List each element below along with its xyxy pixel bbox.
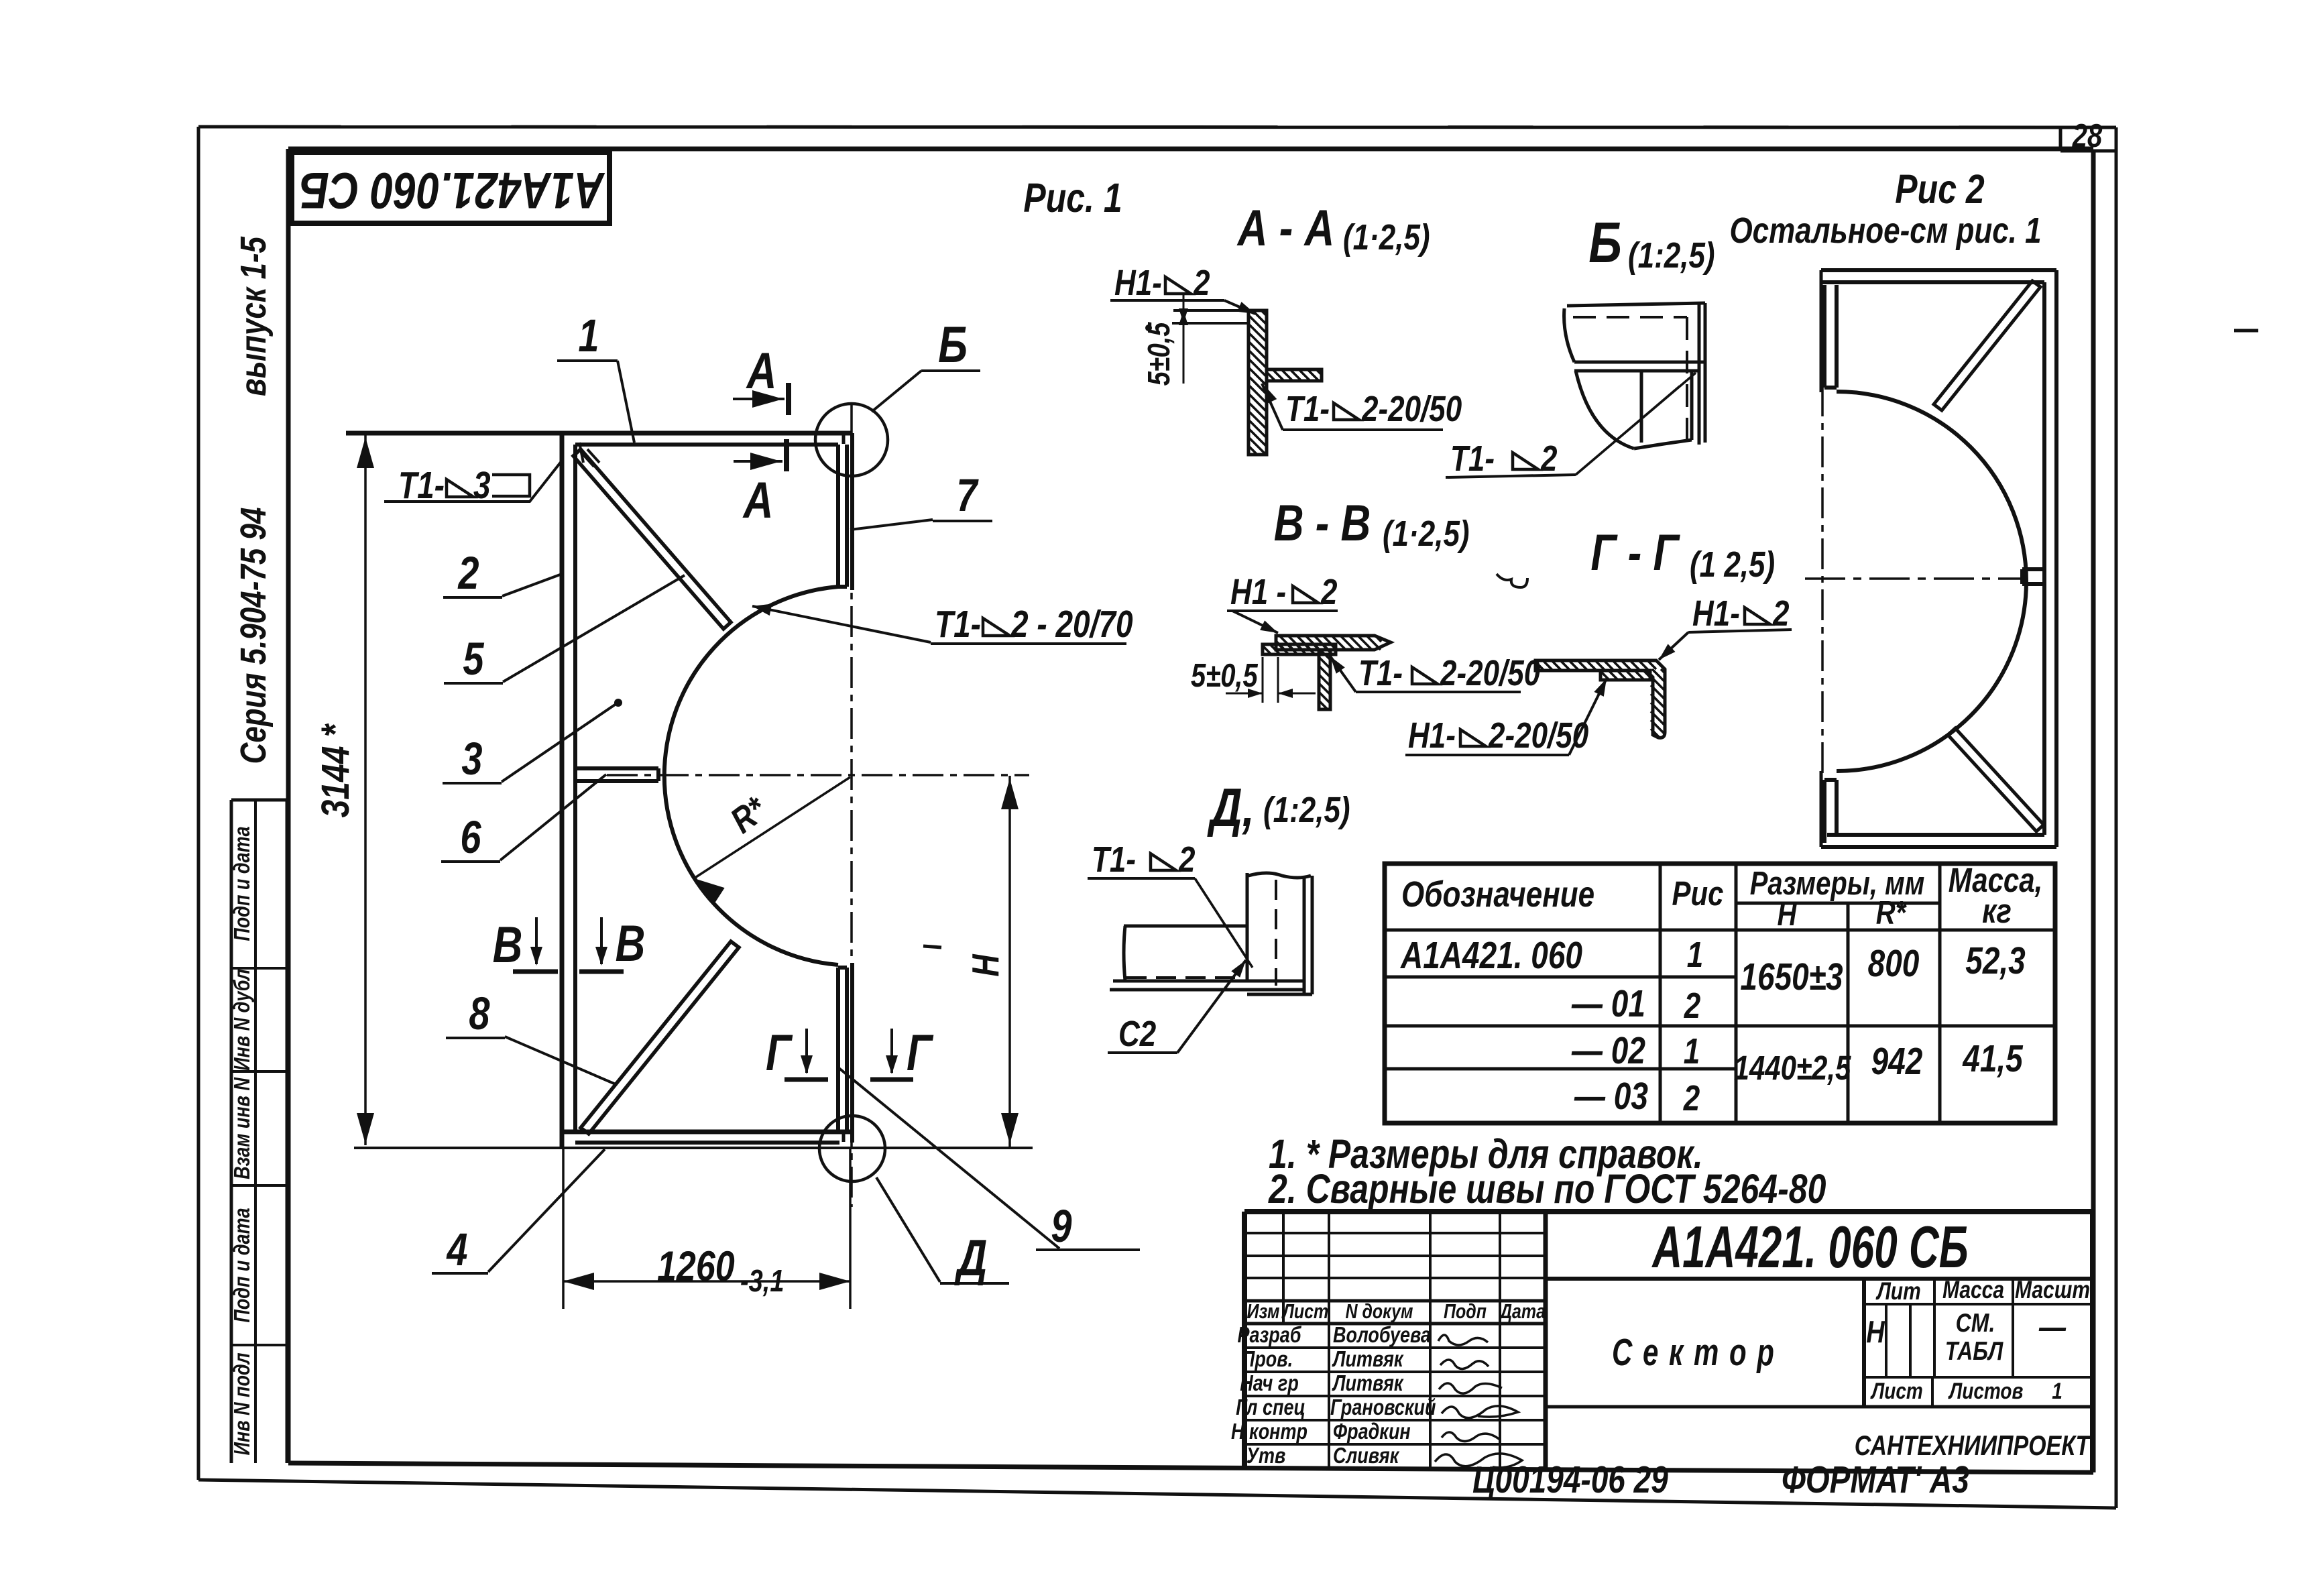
section mark В (left) (493, 916, 558, 973)
table row А1А421.060 (1399, 935, 1703, 976)
svg-text:Г: Г (766, 1024, 793, 1081)
svg-text:Утв: Утв (1246, 1444, 1286, 1468)
svg-text:Д: Д (954, 1229, 987, 1286)
svg-text:8: 8 (469, 988, 489, 1040)
svg-text:3: 3 (461, 734, 482, 785)
svg-text:— 03: — 03 (1574, 1075, 1648, 1117)
svg-text:Литвяк: Литвяк (1332, 1348, 1404, 1372)
Рис.2 upper diagonal (1934, 281, 2040, 410)
svg-text:2-20/50: 2-20/50 (1440, 654, 1540, 693)
title block Лит/Масса/Масшт headers (1875, 1277, 2091, 1305)
Рис.2 left top member (1821, 270, 1837, 392)
section title Г-Г (1:2,5) (1590, 524, 1775, 585)
Рис.2 horizontal centreline (1805, 577, 2022, 580)
svg-text:2: 2 (458, 548, 479, 599)
svg-text:Лит: Лит (1875, 1278, 1921, 1305)
svg-text:2: 2 (1540, 439, 1557, 479)
Рис.1 lower diagonal member 8 (581, 941, 739, 1134)
svg-text:2 - 20/70: 2 - 20/70 (1010, 603, 1133, 645)
svg-text:В - В: В - В (1274, 494, 1371, 551)
position 2 (443, 548, 562, 599)
svg-text:Н: Н (965, 954, 1006, 977)
Рис.2 semicircular opening (1837, 392, 2026, 771)
А-А thickness dimension 5±0,5 (1141, 294, 1188, 386)
section title В-В (1:2,5) (1274, 494, 1470, 554)
svg-text:САНТЕХНИИПРОЕКТ: САНТЕХНИИПРОЕКТ (1855, 1431, 2091, 1462)
svg-text:—: — (2038, 1310, 2067, 1346)
svg-text:2: 2 (1684, 986, 1700, 1026)
specification table (1385, 864, 2055, 1123)
Г-Г weld label Н1-тре2 (1659, 594, 1792, 660)
svg-text:R*: R* (1876, 895, 1908, 931)
svg-text:3: 3 (473, 465, 491, 506)
svg-text:1440±2,5: 1440±2,5 (1734, 1049, 1852, 1087)
svg-text:Д,: Д, (1207, 777, 1255, 838)
Рис.1 bottom right post member 9 (838, 963, 852, 1143)
svg-text:(1·2,5): (1·2,5) (1343, 218, 1430, 257)
title block row Гл спец Грановский (1236, 1396, 1518, 1420)
Рис.1 top chord end cap (842, 434, 846, 444)
Рис.2 left bottom member (1821, 771, 1837, 847)
svg-text:Фрадкин: Фрадкин (1333, 1420, 1411, 1444)
title block Лист / Листов 1 (1870, 1378, 2062, 1403)
svg-text:Подп и дата: Подп и дата (231, 826, 255, 941)
svg-text:А1А421. 060 СБ: А1А421. 060 СБ (1651, 1214, 1969, 1280)
svg-text:В: В (616, 915, 646, 972)
title block row Пров. Литвяк (1242, 1348, 1489, 1372)
section Г-Г profile (1535, 660, 1665, 738)
svg-text:2: 2 (1683, 1079, 1700, 1118)
svg-text:Масшт: Масшт (2015, 1277, 2090, 1303)
svg-text:Н1-: Н1- (1114, 264, 1162, 303)
table header Масса, кг (1949, 861, 2043, 930)
drawing inner frame (288, 149, 2093, 1472)
svg-text:С2: С2 (1118, 1014, 1156, 1054)
svg-text:2: 2 (1320, 573, 1337, 612)
svg-text:ФОРМАТ' А3: ФОРМАТ' А3 (1782, 1459, 1969, 1501)
detail circle Б on Рис.1 (815, 404, 888, 476)
svg-text:Дата: Дата (1499, 1300, 1546, 1323)
svg-text:Рис 2: Рис 2 (1895, 166, 1984, 212)
svg-text:Т1-: Т1- (398, 465, 445, 506)
Рис.1 left post member 2 (562, 433, 575, 1148)
title block row Н контр Фрадкин (1231, 1420, 1501, 1444)
svg-text:Волобуева: Волобуева (1333, 1324, 1431, 1348)
position 8 (446, 988, 616, 1084)
В-В weld label Н1-тре2 (1227, 573, 1338, 633)
section А-А profile (1172, 310, 1322, 455)
position 6 (441, 774, 606, 863)
svg-text:Изм: Изм (1247, 1300, 1280, 1323)
svg-text:Пров.: Пров. (1242, 1348, 1293, 1372)
svg-text:2: 2 (1772, 594, 1789, 634)
table row -01 (1571, 983, 1700, 1026)
Б weld label Т1-тре2 (1446, 373, 1696, 479)
svg-text:А1А421.060 СБ: А1А421.060 СБ (300, 162, 605, 219)
svg-text:Т1-: Т1- (1285, 390, 1330, 429)
svg-text:Г - Г: Г - Г (1590, 524, 1680, 581)
detail Б drawing (1564, 303, 1705, 449)
svg-text:Т1-: Т1- (1450, 439, 1495, 479)
Г-Г weld label Н1-тре2-20/50 (1405, 679, 1607, 756)
position 4 (432, 1149, 605, 1275)
stray smudge near В-В (1497, 574, 1527, 587)
svg-text:Сливяк: Сливяк (1333, 1444, 1400, 1468)
svg-text:Н: Н (1778, 896, 1798, 933)
dimension 1260-3,1 (563, 1148, 850, 1309)
position 9 (838, 1067, 1140, 1252)
weld label Т1-тре2-20/70 on Рис.1 (752, 603, 1133, 645)
dimension H (965, 776, 1019, 1147)
Рис.2 right post (2044, 270, 2056, 847)
svg-text:— 02: — 02 (1571, 1030, 1645, 1071)
detail Д drawing (1110, 873, 1312, 994)
position 3 (443, 699, 622, 784)
Рис.1 corner weld tick (582, 453, 594, 467)
svg-text:52,3: 52,3 (1965, 940, 2026, 982)
position 5 (444, 575, 685, 685)
svg-text:Листов: Листов (1948, 1378, 2023, 1403)
Рис.1 upper diagonal member 5 (573, 443, 731, 629)
title block grid (1244, 1212, 2093, 1472)
svg-text:Подп: Подп (1444, 1300, 1487, 1323)
svg-text:Серия 5.904-75 94: Серия 5.904-75 94 (234, 508, 274, 764)
svg-text:А: А (746, 342, 777, 399)
В-В thickness dimension 5±0,5 (1191, 657, 1316, 703)
svg-text:-3,1: -3,1 (740, 1263, 784, 1297)
title block header row Изм Лист N докум Подп Дата (1247, 1300, 1546, 1323)
section В-В profile (1263, 636, 1391, 709)
section mark А (upper) (733, 342, 789, 415)
svg-text:Литвяк: Литвяк (1332, 1372, 1404, 1396)
svg-text:N докум: N докум (1345, 1300, 1413, 1323)
svg-text:1260: 1260 (657, 1242, 735, 1290)
svg-text:Н1-: Н1- (1692, 594, 1740, 634)
А-А weld label Н1-тре2 (1110, 264, 1255, 314)
svg-text:Обозначение: Обозначение (1401, 875, 1594, 915)
title block row Разраб Волобуева (1237, 1324, 1488, 1348)
detail label Д (876, 1177, 1009, 1286)
title block row Нач гр Литвяк (1240, 1372, 1502, 1396)
Рис.2 bottom chord (1821, 835, 2056, 847)
svg-text:2: 2 (1193, 264, 1210, 303)
svg-text:Б: Б (938, 316, 968, 373)
svg-text:А: А (742, 471, 774, 528)
Рис.1 top right post member 7 (838, 433, 852, 590)
Рис.2 middle stub (2022, 569, 2044, 584)
svg-text:Грановский: Грановский (1330, 1396, 1436, 1420)
detail title Д (1:2,5) (1207, 777, 1350, 838)
svg-text:Лист: Лист (1870, 1378, 1923, 1403)
svg-text:Инв N дубл: Инв N дубл (231, 969, 255, 1071)
page number box 28 (2060, 118, 2116, 154)
svg-text:(1·2,5): (1·2,5) (1383, 514, 1470, 554)
svg-text:СМ.: СМ. (1956, 1308, 1995, 1338)
svg-text:6: 6 (460, 812, 481, 864)
svg-text:1: 1 (578, 310, 599, 362)
svg-text:1: 1 (1684, 1032, 1700, 1071)
svg-text:1: 1 (2052, 1378, 2062, 1403)
svg-text:5±0,5: 5±0,5 (1141, 321, 1175, 386)
svg-text:А - А: А - А (1236, 199, 1334, 256)
Рис.1 middle stub member 6 (575, 768, 658, 781)
position 7 (850, 470, 992, 530)
table row -03 (1574, 1075, 1700, 1118)
svg-text:Рис: Рис (1672, 874, 1723, 913)
svg-text:2-20/50: 2-20/50 (1361, 390, 1462, 429)
svg-text:выпуск 1-5: выпуск 1-5 (234, 236, 274, 396)
dimension 3144* (314, 434, 374, 1145)
section mark В (right) (579, 915, 645, 972)
Д weld label С2 (1108, 960, 1246, 1054)
inverted document stamp А1А421.060 СБ (292, 152, 609, 223)
svg-text:Б: Б (1588, 210, 1622, 274)
Рис.1 semicircular opening R* (664, 587, 838, 965)
Рис.1 bottom extension line (354, 1147, 1033, 1149)
svg-text:Лист: Лист (1281, 1300, 1328, 1323)
Рис.1 horizontal centreline (607, 774, 1029, 776)
stray dash near Н dimension (923, 946, 941, 947)
svg-text:(1:2,5): (1:2,5) (1628, 236, 1715, 276)
svg-text:1650±3: 1650±3 (1740, 956, 1843, 998)
Рис.2 top chord (1821, 270, 2056, 282)
svg-text:Н контр: Н контр (1231, 1420, 1308, 1444)
svg-text:Гл спец: Гл спец (1236, 1396, 1305, 1420)
Рис.2 lower diagonal (1948, 728, 2044, 831)
svg-text:942: 942 (1871, 1041, 1923, 1082)
svg-text:1: 1 (1687, 935, 1703, 975)
Рис.1 top chord member 1 (346, 433, 852, 445)
svg-text:кг: кг (1982, 892, 2012, 930)
detail title Б (1:2,5) (1588, 210, 1715, 276)
А-А weld label Т1-тре2-20/50 (1262, 384, 1462, 430)
svg-text:2. Сварные швы по ГОСТ 5: 2. Сварные швы по ГОСТ 5264-80 (1268, 1166, 1826, 1212)
svg-text:Подп и дата: Подп и дата (231, 1208, 255, 1322)
svg-text:Т1-: Т1- (1358, 654, 1403, 693)
section mark А (lower) (734, 439, 787, 528)
svg-text:— 01: — 01 (1571, 983, 1645, 1025)
svg-text:Т1-: Т1- (1092, 840, 1136, 880)
svg-text:В: В (493, 916, 523, 973)
Рис.2 vertical centreline (1821, 386, 1824, 778)
svg-text:Рис. 1: Рис. 1 (1023, 175, 1122, 221)
Рис.1 vertical centreline (850, 402, 853, 1207)
svg-text:3144 *: 3144 * (314, 723, 358, 818)
detail label Б (872, 316, 980, 412)
svg-text:Разраб: Разраб (1237, 1324, 1301, 1348)
svg-text:Взам инв N: Взам инв N (231, 1077, 255, 1179)
svg-text:2: 2 (1178, 840, 1195, 880)
svg-text:Нач гр: Нач гр (1240, 1372, 1299, 1396)
svg-text:Ц00194-06 29: Ц00194-06 29 (1472, 1459, 1668, 1501)
detail circle Д on Рис.1 (819, 1116, 885, 1181)
section mark Г (right) (870, 1024, 933, 1081)
svg-text:2-20/50: 2-20/50 (1488, 716, 1588, 756)
svg-text:Т1-: Т1- (935, 603, 981, 645)
svg-text:Остальное-см рис. 1: Остальное-см рис. 1 (1729, 211, 2041, 251)
svg-text:4: 4 (446, 1224, 468, 1276)
svg-text:800: 800 (1868, 943, 1920, 984)
svg-text:С е к т о р: С е к т о р (1612, 1331, 1776, 1374)
svg-text:Н1-: Н1- (1408, 716, 1456, 756)
sheet outer border (198, 127, 2116, 1508)
svg-text:(1 2,5): (1 2,5) (1690, 545, 1775, 585)
Рис.1 bottom chord member 4 (562, 1132, 852, 1143)
Рис.1 bottom chord end cap (842, 1133, 846, 1142)
svg-text:Инв N подл: Инв N подл (231, 1352, 255, 1455)
title block row Утв Сливяк (1246, 1444, 1522, 1468)
svg-text:28: 28 (2072, 118, 2103, 154)
title block Масса value СМ.ТАБЛ (1945, 1308, 2004, 1366)
weld label Т1-тре3 on Рис.1 (384, 461, 562, 506)
section mark Г (left) (766, 1024, 828, 1081)
Д weld label Т1-тре2 (1088, 840, 1253, 968)
radius leader R* (694, 777, 850, 903)
svg-text:ТАБЛ: ТАБЛ (1945, 1336, 2004, 1366)
stray mark in right margin (2234, 329, 2258, 333)
position 1 (557, 310, 634, 443)
В-В weld label Т1-тре2-20/50 (1329, 654, 1540, 693)
svg-text:5±0,5: 5±0,5 (1191, 658, 1259, 694)
svg-text:(1:2,5): (1:2,5) (1263, 791, 1350, 830)
margin graph strip (231, 800, 287, 1463)
svg-text:Н1 -: Н1 - (1230, 573, 1286, 612)
svg-text:7: 7 (956, 470, 979, 522)
svg-text:5: 5 (463, 634, 484, 685)
svg-text:41,5: 41,5 (1962, 1038, 2024, 1080)
svg-text:Н: Н (1866, 1314, 1885, 1348)
svg-text:Масса: Масса (1942, 1277, 2004, 1303)
svg-text:Г: Г (907, 1024, 933, 1081)
svg-text:А1А421. 060: А1А421. 060 (1399, 935, 1582, 976)
section title А-А (1:2,5) (1236, 199, 1430, 257)
table row -02 (1571, 1030, 1700, 1071)
